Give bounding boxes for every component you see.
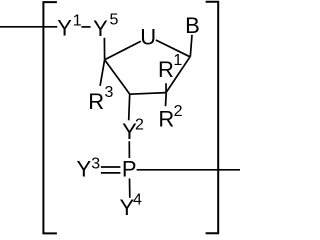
svg-text:U: U [140,25,156,50]
wire bond B-C1' [190,35,192,57]
svg-text:1: 1 [73,12,82,29]
wire ring bond C3'-C4' [105,60,130,94]
svg-text:1: 1 [173,52,182,69]
wire ring bond O(U)-C1' [156,40,190,57]
svg-text:Y: Y [93,16,108,41]
svg-text:2: 2 [174,103,183,120]
svg-text:Y: Y [57,16,72,41]
bracket left [43,2,57,233]
svg-text:2: 2 [135,116,144,133]
svg-text:R: R [158,57,174,82]
wire bond Y5-C4' [103,38,105,60]
wire left chain bond into bracket [0,26,57,28]
wire bond P-right chain [137,169,240,171]
svg-text:R: R [88,89,104,114]
svg-text:4: 4 [133,192,142,209]
wire bond C4'-R3 [100,60,105,86]
svg-text:Y: Y [76,156,91,181]
wire double bond Y3=P upper line [101,166,121,168]
wire bond Y2-P [128,141,130,158]
svg-text:5: 5 [110,11,119,28]
wire bond Y1-Y5 [81,26,90,28]
wire bond P-Y4 [129,179,131,198]
wire double bond Y3=P lower line [101,172,121,174]
wire bond C2'-R2 [165,93,168,106]
svg-text:B: B [185,13,200,38]
wire bond C2'-R1 [165,83,167,92]
svg-text:3: 3 [105,84,114,101]
wire bond C3'-Y2 [129,94,130,120]
svg-text:3: 3 [91,156,100,173]
svg-text:P: P [122,156,137,181]
wire ring bond C2'-C3' [130,93,166,95]
bracket right [206,2,219,233]
wire ring bond C4'-O(U) [105,41,141,60]
svg-text:R: R [158,106,174,131]
wire ring bond C1'-C2' [166,57,190,93]
